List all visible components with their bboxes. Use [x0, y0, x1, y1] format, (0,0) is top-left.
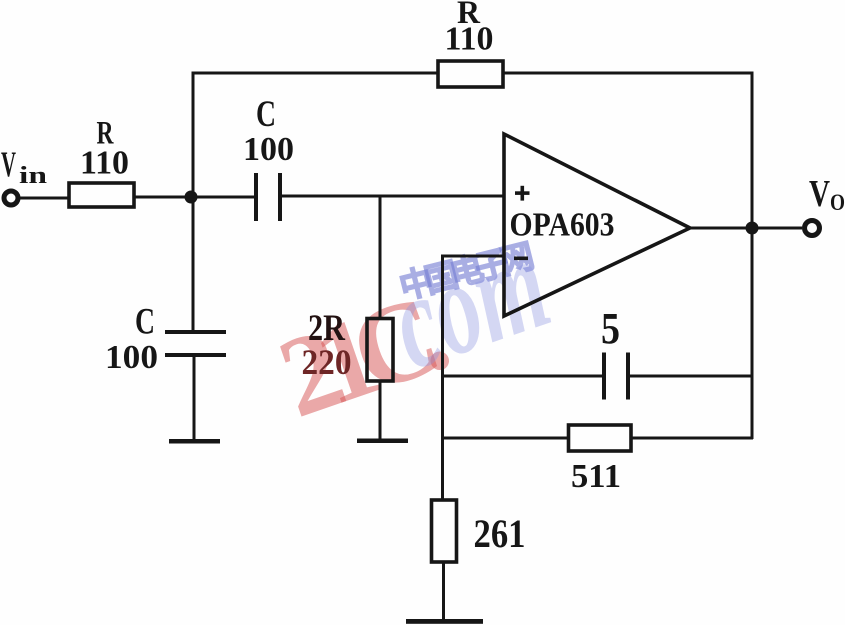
resistor 511 : left wire — [441, 437, 569, 440]
ground (2R) — [357, 439, 408, 444]
capacitor 5 : plate left — [602, 353, 606, 400]
svg-text:V: V — [1, 144, 16, 184]
svg-text:110: 110 — [80, 145, 129, 182]
wire 2R drop — [379, 196, 382, 320]
label + input — [515, 191, 530, 195]
ground (shunt cap) — [169, 439, 220, 444]
wire feedback dropper right — [751, 72, 754, 230]
capacitor 5 : plate right — [626, 353, 630, 400]
wire 2R to ground — [379, 381, 382, 440]
wire top feedback left — [192, 72, 439, 75]
wire top feedback right — [503, 72, 753, 75]
resistor R 110 (feedback top) — [438, 61, 503, 87]
wire feedback riser — [192, 73, 195, 197]
resistor 2R 220 — [367, 319, 393, 382]
wire output dropper lower — [751, 228, 754, 439]
resistor R 110 (input) — [69, 183, 134, 207]
wire 261 to ground — [442, 562, 445, 620]
watermark 中国电子网 — [396, 238, 536, 307]
svg-text:100: 100 — [105, 339, 158, 376]
capacitor C 100 series : plate left — [254, 173, 258, 221]
terminal Vin — [4, 191, 18, 205]
capacitor 5 : left wire — [441, 375, 604, 378]
wire minus input — [441, 255, 504, 258]
svg-text:O: O — [830, 190, 845, 215]
svg-text:in: in — [19, 163, 47, 189]
wire input — [18, 197, 69, 200]
svg-text:110: 110 — [445, 21, 494, 58]
watermark com — [373, 208, 565, 398]
svg-text:C: C — [256, 94, 276, 135]
watermark 21C. — [264, 268, 460, 441]
wire shunt cap drop — [192, 197, 195, 332]
capacitor 5 : right wire — [630, 375, 753, 378]
svg-text:261: 261 — [474, 511, 526, 556]
svg-text:5: 5 — [601, 304, 620, 353]
resistor 511 — [569, 425, 632, 451]
resistor 511 : right wire — [631, 437, 753, 440]
wire op-amp output — [690, 227, 802, 230]
wire resistor to series cap — [134, 196, 256, 199]
svg-text:220: 220 — [302, 342, 352, 382]
resistor 261 — [432, 500, 457, 562]
ground (261) — [406, 619, 483, 624]
capacitor C 100 shunt : bottom plate — [165, 353, 226, 357]
wire minus dropper — [441, 255, 444, 502]
label - input — [514, 257, 528, 261]
capacitor C 100 shunt : top plate — [165, 330, 226, 334]
svg-text:V: V — [809, 173, 830, 215]
node A junction dot — [185, 191, 198, 204]
node B junction dot — [746, 222, 759, 235]
svg-text:511: 511 — [571, 458, 621, 495]
op-amp U1 OPA603 — [504, 134, 690, 316]
wire cap to op-amp plus input — [282, 195, 504, 198]
svg-text:C: C — [135, 302, 155, 343]
svg-text:100: 100 — [243, 131, 294, 168]
terminal Vo — [805, 221, 820, 236]
capacitor C 100 series : plate right — [278, 173, 282, 221]
svg-text:OPA603: OPA603 — [510, 207, 615, 244]
wire shunt cap to ground — [193, 356, 196, 440]
